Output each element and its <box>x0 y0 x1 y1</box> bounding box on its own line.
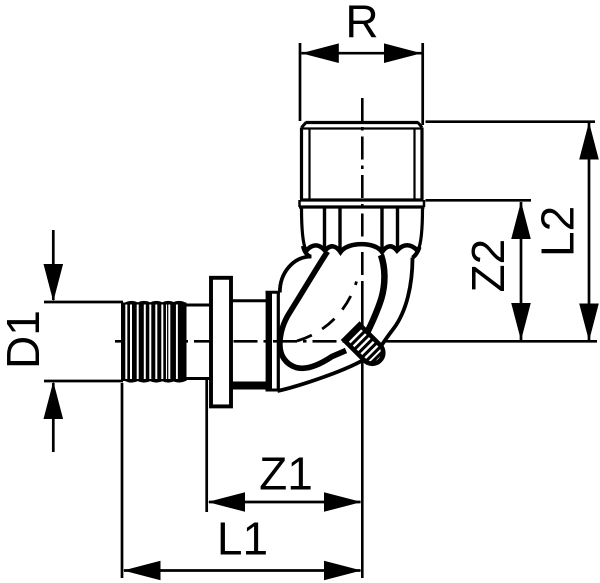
svg-text:D1: D1 <box>0 310 49 369</box>
arrow Z1 right <box>324 492 362 512</box>
arrow R right <box>384 43 422 63</box>
socket tube <box>231 301 269 386</box>
dashed tangent arc <box>297 282 357 342</box>
male thread top end <box>302 123 423 200</box>
elbow outer arc upper <box>379 258 413 350</box>
arrow L2 top <box>579 122 599 160</box>
socket rim <box>266 291 281 391</box>
wire horizontal centerline dash-dot <box>115 340 597 343</box>
flange under thread <box>299 200 425 207</box>
wire vertical centerline dash-dot <box>361 98 364 578</box>
elbow outer arc lower <box>278 359 367 392</box>
svg-text:L1: L1 <box>217 513 268 565</box>
arrow L2 bottom <box>579 304 599 342</box>
dimension R <box>300 43 423 125</box>
arrow Z1 left <box>208 492 246 512</box>
svg-text:L2: L2 <box>532 206 584 257</box>
arrow R left <box>301 43 339 63</box>
arrow L1 right <box>324 561 362 581</box>
dimension Z1 <box>207 380 361 512</box>
elbow inner thick band arc B <box>280 252 346 369</box>
elbow inner fillet arc A <box>280 257 312 293</box>
flange washer on pipe <box>211 278 231 407</box>
hex corner droop left <box>303 246 311 257</box>
arrow Z2 bottom <box>511 303 531 341</box>
svg-text:R: R <box>345 0 378 48</box>
arrow L1 left <box>123 561 161 581</box>
dimension L1 <box>122 383 361 578</box>
arrow D1 bottom <box>44 382 64 420</box>
hatched boss stub <box>344 324 388 368</box>
dimension L2 <box>426 122 596 340</box>
svg-text:Z1: Z1 <box>259 448 313 500</box>
ribbed barb pipe end <box>121 301 187 383</box>
arrow Z2 top <box>511 202 531 240</box>
elbow inner band arc B2 <box>366 255 385 336</box>
svg-text:Z2: Z2 <box>462 239 514 293</box>
arrow D1 top <box>44 264 64 302</box>
plain pipe section <box>187 305 213 379</box>
hex corner droop right <box>413 247 420 258</box>
hex nut <box>302 208 423 252</box>
dimension Z2 <box>426 200 532 340</box>
dimension D1 <box>44 230 123 452</box>
